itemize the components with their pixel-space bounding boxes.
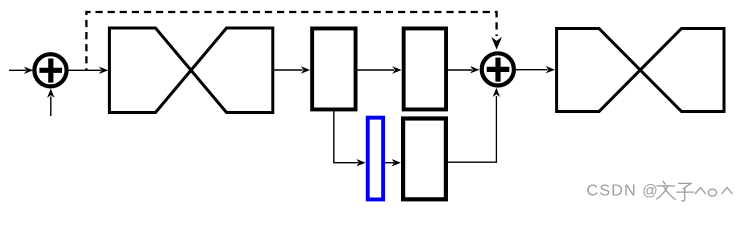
block X1: crossover xyxy=(109,28,272,113)
wire W10: B4 to summer S2 lower input xyxy=(448,88,500,163)
wire W7: B2 to summer S2 xyxy=(448,66,479,73)
svg-text:@: @ xyxy=(642,183,658,200)
block B1 xyxy=(312,28,355,109)
wire W9: B3 to block B4 xyxy=(385,159,401,166)
block B4 xyxy=(403,119,446,200)
watermark: CSDN @文子^o^ xyxy=(587,181,733,201)
wire W6: B1 to block B2 xyxy=(358,66,402,73)
summer S2 xyxy=(482,53,514,85)
block X2: crossover xyxy=(557,29,724,112)
wire W3: summer S1 to crossover X1 xyxy=(69,67,109,74)
wire W11: summer S2 to crossover X2 xyxy=(516,66,555,73)
block B2 xyxy=(404,28,446,109)
summer S1 xyxy=(34,54,66,86)
wire W8: branch from B1 down to block B3 xyxy=(334,111,366,166)
wire W1: input into summer S1 xyxy=(9,67,33,74)
wire W4: dashed feedback from node N1 to summer S2 xyxy=(86,12,502,70)
wire W5: X1 to block B1 xyxy=(274,66,310,73)
block B3 (blue) xyxy=(368,118,383,200)
wire W2: lower input into summer S1 xyxy=(47,89,54,116)
svg-text:CSDN: CSDN xyxy=(587,183,636,200)
